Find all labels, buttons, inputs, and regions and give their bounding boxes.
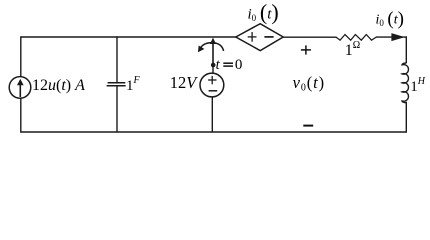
node switch junction dot [211, 63, 216, 68]
diamond plus sign [248, 32, 257, 42]
capacitor C1 branch wire upper [116, 36, 118, 82]
V1 plus sign [208, 76, 216, 84]
wire source to bottom [211, 97, 213, 132]
wire resistor to corner [376, 36, 406, 38]
capacitor C1 (1F) plates [108, 82, 126, 84]
capacitor C1 branch wire lower [116, 86, 118, 132]
switch S1 action arc arrow [198, 43, 224, 53]
wire right upper [405, 36, 407, 63]
switch S1 lever arrow (to top wire) [210, 38, 216, 64]
current source I1 arrow [17, 79, 24, 97]
wire right lower [405, 102, 407, 133]
dependent source U1 (diamond) [236, 24, 283, 51]
current source I1 (12u(t) A) circle [9, 77, 31, 99]
V1 minus sign [209, 90, 218, 92]
wire top left segment [21, 36, 236, 38]
inductor L1 (1H) coil [402, 63, 408, 103]
svg-text:0: 0 [235, 57, 243, 73]
svg-text:12V: 12V [170, 73, 199, 92]
wire dot to source [212, 65, 214, 74]
svg-text:v0(t): v0(t) [293, 73, 325, 94]
label + of v0 [301, 45, 311, 54]
voltage source V1 (12V) circle [200, 73, 224, 97]
label - of v0 [303, 125, 313, 127]
diamond minus sign [264, 36, 273, 38]
current direction arrow i0(t) [391, 33, 404, 41]
wire left lower [20, 98, 22, 133]
resistor R1 (1 ohm) zigzag [336, 35, 376, 41]
wire left upper [20, 36, 22, 77]
wire top right segment (diamond to resistor) [283, 36, 337, 38]
svg-text:12u(t) A: 12u(t) A [32, 77, 85, 94]
wire bottom [21, 131, 407, 133]
